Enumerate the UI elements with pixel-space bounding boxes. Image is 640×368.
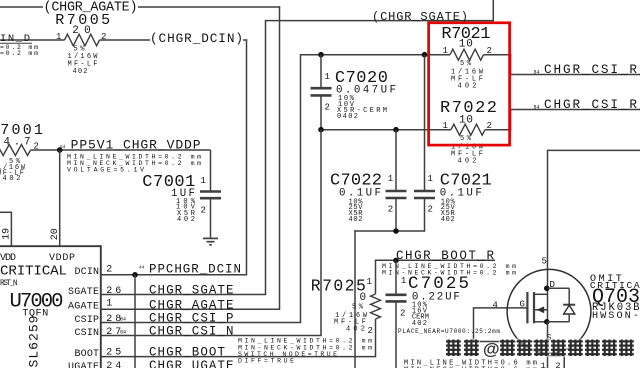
svg-text:VDDP: VDDP bbox=[49, 253, 75, 264]
junction drain node D bbox=[544, 286, 550, 292]
resistor R7025 bbox=[311, 260, 381, 356]
svg-text:1: 1 bbox=[388, 174, 393, 184]
wire R7001 pin2 to PP5V1 node bbox=[31, 149, 211, 151]
svg-text:(CHGR_DCIN): (CHGR_DCIN) bbox=[150, 31, 243, 46]
bottom net attributes 0.6mm bbox=[404, 360, 537, 368]
wire CHGR_BOOT_R horizontal bbox=[375, 259, 495, 261]
svg-text:DIFF=TRUE: DIFF=TRUE bbox=[238, 358, 294, 365]
svg-text:R7005: R7005 bbox=[55, 12, 110, 29]
wire R7022 pin2 to corner bbox=[485, 129, 511, 131]
transistor Q7030 MOSFET bbox=[507, 269, 591, 353]
U7000 pin 24 UGATE bbox=[68, 361, 121, 368]
wire source stub right bbox=[548, 355, 565, 357]
red highlight box around R7021/R7022 bbox=[429, 23, 510, 145]
capacitor C7021 bbox=[414, 55, 492, 232]
svg-text:PPCHGR_DCIN: PPCHGR_DCIN bbox=[149, 262, 241, 276]
resistor R7021 bbox=[441, 25, 492, 91]
svg-text:1: 1 bbox=[443, 121, 448, 131]
wire DCIN branch vertical down bbox=[134, 275, 136, 368]
svg-text:CHGR_BOOT: CHGR_BOOT bbox=[149, 346, 225, 360]
svg-text:1: 1 bbox=[367, 277, 372, 287]
svg-text:2: 2 bbox=[201, 206, 206, 216]
svg-text:402: 402 bbox=[458, 83, 477, 91]
svg-text:1: 1 bbox=[401, 276, 406, 286]
svg-text:AGATE: AGATE bbox=[68, 302, 99, 313]
junction source node S bbox=[544, 319, 550, 325]
svg-text:402: 402 bbox=[177, 216, 195, 224]
svg-text:1: 1 bbox=[106, 298, 112, 309]
junction C7020 bottom bbox=[318, 127, 324, 133]
svg-text:402: 402 bbox=[349, 216, 363, 224]
resistor R7001 (clipped at left edge) bbox=[0, 122, 43, 183]
svg-text:402: 402 bbox=[441, 216, 455, 224]
svg-text:2: 2 bbox=[400, 309, 405, 319]
wire CHGR_SGATE top horizontal bbox=[266, 20, 495, 22]
wire U7000 pin20 VDDP up to PP5V1 node bbox=[59, 150, 61, 246]
U7000 pin 2 DCIN bbox=[75, 265, 113, 278]
svg-text:5%: 5% bbox=[460, 135, 472, 143]
svg-text:402: 402 bbox=[458, 158, 477, 166]
wire CHGR_AGATE vertical down to U7000 AGATE pin bbox=[279, 6, 281, 309]
wire CHGR_AGATE top horizontal left segment bbox=[0, 6, 43, 8]
transistor Q7030 text labels bbox=[590, 273, 640, 322]
capacitor C7025 bbox=[386, 260, 501, 368]
svg-text:CHGR_CSI_R_N: CHGR_CSI_R_N bbox=[544, 97, 640, 112]
wire CSIN pin row bbox=[101, 335, 322, 337]
wire switch node vertical down bbox=[354, 230, 356, 368]
svg-text:4: 4 bbox=[493, 301, 498, 311]
capacitor C7020 bbox=[311, 55, 397, 130]
svg-text:20: 20 bbox=[50, 228, 61, 240]
svg-text:CRITICAL: CRITICAL bbox=[0, 264, 67, 280]
junction C7025 top bbox=[393, 258, 399, 264]
wire CSIP pin row bbox=[101, 322, 301, 324]
junction C7020 top bbox=[318, 52, 324, 58]
svg-text:1: 1 bbox=[325, 72, 330, 82]
op-amp U7000 charger IC box bbox=[0, 245, 101, 368]
junction C7022 bottom bbox=[393, 228, 399, 234]
wire AGATE pin row bbox=[101, 308, 280, 310]
svg-text:CHGR_AGATE: CHGR_AGATE bbox=[149, 298, 234, 312]
wire CHGR_CSI_R upper row bbox=[511, 74, 640, 76]
svg-text:CHGR_UGATE: CHGR_UGATE bbox=[149, 359, 234, 368]
svg-text:RST_N: RST_N bbox=[0, 280, 18, 288]
svg-text:84: 84 bbox=[120, 317, 126, 323]
svg-text:2: 2 bbox=[325, 103, 330, 113]
wire R7021 pin2 to corner bbox=[484, 54, 512, 56]
ground symbol bbox=[203, 238, 218, 244]
svg-text:CHGR_BOOT_R: CHGR_BOOT_R bbox=[396, 249, 494, 263]
U7000 pin 27 CSIN bbox=[75, 327, 127, 339]
svg-text:402: 402 bbox=[346, 326, 365, 334]
junction PP5V1 node bbox=[57, 147, 63, 153]
svg-text:5: 5 bbox=[542, 257, 547, 267]
svg-text:5%: 5% bbox=[352, 304, 364, 312]
svg-text:5%: 5% bbox=[460, 60, 472, 68]
wire Q7030 drain from right edge bbox=[548, 149, 640, 151]
wire CHGR_CSI_P vertical down to U7000 CSIP pin bbox=[300, 54, 302, 323]
wire CHGR_DCIN to corner bbox=[243, 39, 247, 41]
svg-text:1: 1 bbox=[541, 361, 546, 368]
svg-text:PLACE_NEAR=U7000:.25:2mm: PLACE_NEAR=U7000:.25:2mm bbox=[398, 328, 500, 335]
wire BOOT pin row bbox=[101, 356, 376, 358]
svg-text:1: 1 bbox=[201, 176, 206, 186]
svg-text:CHGR_SGATE: CHGR_SGATE bbox=[149, 284, 234, 298]
U7000 pin 1 AGATE bbox=[68, 298, 112, 312]
resistor R7005 bbox=[55, 12, 110, 76]
wire U7000 pin19 VDD from left edge bbox=[0, 211, 11, 213]
svg-text:1: 1 bbox=[443, 46, 448, 56]
svg-text:84: 84 bbox=[60, 144, 66, 150]
wire CHGR_AGATE top horizontal right segment bbox=[138, 6, 280, 8]
svg-text:PP5V1_CHGR_VDDP: PP5V1_CHGR_VDDP bbox=[71, 137, 201, 152]
U7000 pin 25 BOOT bbox=[75, 348, 122, 360]
svg-text:2: 2 bbox=[428, 205, 433, 215]
wire Q7030 gate from below bbox=[473, 307, 475, 341]
resistor R7022 bbox=[440, 99, 497, 166]
svg-text:402: 402 bbox=[3, 175, 21, 183]
svg-text:HWSON-8: HWSON-8 bbox=[592, 311, 640, 322]
junction C7021 top column bbox=[422, 52, 428, 58]
watermark toutiao xunwei (CJK drawn as glyph blocks) bbox=[445, 338, 635, 358]
wire R7022 output vertical bbox=[510, 109, 512, 130]
svg-text:402: 402 bbox=[412, 320, 427, 328]
svg-text:SL6259: SL6259 bbox=[27, 316, 42, 368]
wire CHGR_CSI_N node horizontal bbox=[321, 129, 451, 131]
U7000 pin 28 CSIP bbox=[75, 314, 127, 326]
wire R7005 left lead to IN_D bbox=[0, 39, 65, 41]
wire CHGR_SGATE vertical down to U7000 SGATE pin bbox=[265, 20, 267, 295]
junction DCIN branch bbox=[132, 272, 138, 278]
svg-text:VDD: VDD bbox=[0, 253, 16, 264]
wire CHGR_CSI_N vertical down to U7000 CSIN pin bbox=[320, 130, 322, 336]
svg-text:1: 1 bbox=[428, 174, 433, 184]
svg-text:CHGR_CSI_P: CHGR_CSI_P bbox=[149, 312, 234, 326]
wire R7005 right lead bbox=[100, 39, 151, 41]
svg-text:CSIP: CSIP bbox=[75, 315, 100, 326]
svg-text:SGATE: SGATE bbox=[68, 287, 99, 298]
svg-text:0: 0 bbox=[360, 292, 367, 304]
wire R7021 output vertical bbox=[510, 54, 512, 75]
svg-text:CSIN: CSIN bbox=[75, 328, 100, 339]
svg-text:C7001: C7001 bbox=[142, 173, 195, 192]
U7000 internal labels bbox=[0, 253, 75, 368]
svg-text:DCIN: DCIN bbox=[75, 267, 100, 278]
svg-text:G: G bbox=[520, 300, 525, 310]
svg-text:BOOT: BOOT bbox=[75, 349, 100, 360]
wire Q7030 source down bbox=[547, 322, 549, 368]
svg-text:84: 84 bbox=[120, 330, 126, 336]
svg-text:2: 2 bbox=[368, 326, 373, 336]
svg-text:2: 2 bbox=[556, 361, 561, 368]
svg-text:402: 402 bbox=[73, 68, 88, 76]
wire DCIN pin row bbox=[101, 274, 247, 276]
diode body diode bbox=[548, 287, 570, 289]
U7000 pin 26 SGATE bbox=[68, 286, 121, 298]
CSIN net attributes bbox=[238, 338, 372, 365]
svg-text:10: 10 bbox=[459, 39, 473, 51]
svg-text:UGATE: UGATE bbox=[68, 362, 99, 368]
svg-text:84: 84 bbox=[534, 105, 540, 111]
wire CHGR_CSI_R lower row bbox=[511, 109, 640, 111]
svg-text:2: 2 bbox=[388, 205, 393, 215]
svg-text:2: 2 bbox=[106, 265, 112, 276]
svg-text:CHGR_CSI_N: CHGR_CSI_N bbox=[149, 325, 234, 339]
wire IN_D underline bbox=[0, 42, 32, 44]
svg-text:19: 19 bbox=[2, 228, 13, 240]
svg-text:@: @ bbox=[483, 340, 500, 359]
svg-text:84: 84 bbox=[534, 70, 540, 76]
wire CHGR_CSI_P node horizontal bbox=[301, 54, 451, 56]
wire switch node horizontal bbox=[354, 230, 425, 232]
wire SGATE pin row bbox=[101, 294, 266, 296]
wire CHGR_DCIN vertical down to U7000 DCIN pin bbox=[246, 39, 248, 274]
capacitor C7022 bbox=[330, 130, 407, 232]
svg-text:CHGR_CSI_R_P: CHGR_CSI_R_P bbox=[544, 62, 640, 77]
capacitor C7001 bbox=[142, 150, 221, 238]
svg-text:R7025: R7025 bbox=[311, 276, 366, 295]
svg-text:44: 44 bbox=[139, 265, 145, 271]
svg-text:0402: 0402 bbox=[337, 113, 358, 121]
junction C7022 top bbox=[393, 127, 399, 133]
wire CHGR_SGATE vertical up to top edge bbox=[492, 0, 494, 21]
